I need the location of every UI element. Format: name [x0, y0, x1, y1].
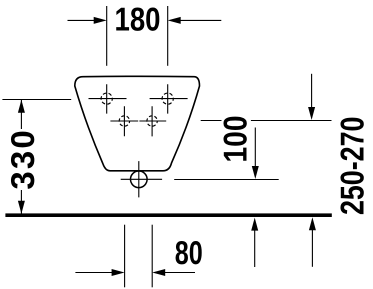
drain outlet crosshair: [121, 161, 162, 197]
dim 330: top reference line: [2, 99, 71, 101]
dim 80: left arrow line: [75, 272, 113, 274]
dim 180: left arrowhead: [94, 17, 107, 24]
dim 330: upper segment of dimension line: [20, 100, 22, 129]
dim 80: extension line left: [124, 225, 126, 288]
dim 100: top reference line right segment: [251, 120, 332, 122]
mounting hole lower-left circle: [119, 116, 129, 126]
dim 180: extension line right: [167, 6, 169, 66]
dim 330: down arrowhead: [18, 201, 25, 214]
floor-to-drain up arrow line: [254, 230, 256, 268]
dim 80: right arrowhead: [152, 269, 165, 276]
svg-text:80: 80: [175, 234, 203, 271]
dim 250-270: up arrowhead: [309, 217, 316, 230]
dim 330: up arrowhead: [18, 100, 25, 113]
mounting hole upper-left crosshair: [89, 84, 127, 113]
mounting hole lower-right circle: [147, 116, 157, 126]
dim 180: extension line left: [106, 6, 108, 66]
dim 180: right arrowhead: [168, 17, 181, 24]
dim 100: dimension line: [254, 128, 256, 168]
drain outlet circle: [131, 171, 148, 188]
dim 80: extension line right: [151, 225, 153, 288]
dim 250-270: upper dimension line: [311, 74, 313, 108]
dim 250-270: lower dimension line: [311, 229, 313, 267]
dim 100: drain-level reference line: [174, 179, 279, 181]
dim 180: right arrow line: [179, 19, 222, 21]
mounting hole lower-left crosshair: [110, 106, 138, 136]
dim 180: left arrow line: [68, 19, 96, 21]
dim 250-270: down arrowhead: [308, 107, 315, 120]
svg-text:100: 100: [216, 116, 253, 163]
dim 80: right arrow line: [163, 272, 195, 274]
dim 100: down arrowhead: [252, 166, 259, 179]
mounting hole upper-right crosshair: [150, 84, 188, 113]
mounting hole upper-left circle: [101, 93, 112, 104]
body outline (bidet rear view): [75, 76, 200, 171]
svg-text:330: 330: [4, 130, 41, 189]
floor-to-drain up arrowhead: [251, 218, 258, 231]
floor line (thick): [5, 213, 331, 217]
mounting hole upper-right circle: [162, 93, 173, 104]
dim 100: top reference line left segment: [201, 120, 222, 122]
svg-text:250-270: 250-270: [334, 117, 371, 216]
mounting hole lower-right crosshair: [139, 106, 166, 136]
dim 330: lower segment of dimension line: [20, 190, 22, 214]
svg-text:180: 180: [115, 1, 161, 38]
dim 80: left arrowhead: [112, 269, 125, 276]
